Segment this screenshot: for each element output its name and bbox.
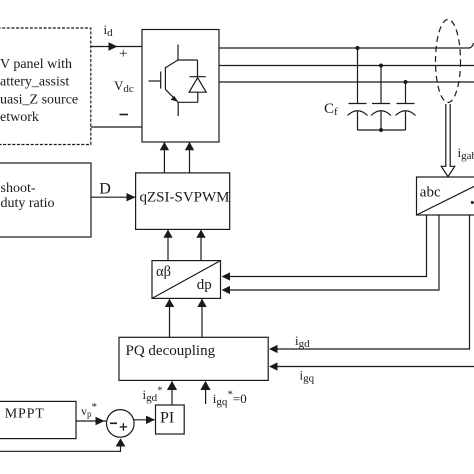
wire: DC+ from PV network to inverter <box>91 46 142 48</box>
label vdc <box>114 78 134 95</box>
wire: abc block output 2 to alpha-beta block <box>229 215 439 290</box>
inverter block U1 <box>142 30 219 143</box>
label abc <box>420 185 441 201</box>
shoot-through duty ratio block <box>0 163 91 237</box>
svg-text:shoot-: shoot- <box>1 181 36 196</box>
feedback wire vp into summing junction <box>0 446 121 452</box>
junction node on phase A <box>356 46 360 50</box>
arrowhead into qZSI-SVPWM bottom 1 <box>163 230 172 238</box>
arrowhead into inverter bottom 2 <box>185 142 194 150</box>
label PQ decoupling <box>126 343 216 359</box>
label Cf <box>324 101 338 118</box>
arrowhead into alpha-beta block input 2 <box>222 286 231 294</box>
capacitor Cf phase B: drop wire <box>380 66 382 104</box>
wire: phase C line <box>219 81 474 83</box>
junction node on phase B <box>379 64 383 68</box>
grid ellipse <box>436 20 461 103</box>
wire: phase B line <box>219 65 474 67</box>
svg-text:D: D <box>99 181 111 198</box>
label + in summing junction <box>120 423 128 431</box>
capacitor Cf phase B: plates <box>371 104 391 131</box>
arrowhead feedback into summing junction <box>116 438 126 446</box>
arrowhead on DC+ wire <box>109 42 118 50</box>
svg-text:PQ decoupling: PQ decoupling <box>126 343 216 359</box>
junction node on capacitor bus <box>379 128 383 132</box>
svg-text:dp: dp <box>197 277 212 293</box>
label MPPT <box>5 406 45 421</box>
label + (DC plus) <box>119 46 127 62</box>
arrowhead vp* into summing junction <box>96 417 105 425</box>
svg-text:network: network <box>0 110 39 125</box>
svg-text:MPPT: MPPT <box>5 406 45 421</box>
label − in summing junction <box>110 422 117 424</box>
arrowhead into inverter bottom 1 <box>160 142 169 150</box>
label − (DC minus) <box>120 114 129 116</box>
PV panel with battery_assist quasi_Z source network block (dashed) <box>0 28 91 145</box>
label igq <box>300 368 315 385</box>
svg-text:αβ: αβ <box>156 264 171 280</box>
label igabc <box>458 145 474 162</box>
svg-text:abc: abc <box>420 185 441 201</box>
wire: igd* from PI to PQ decoupling <box>171 382 173 406</box>
svg-text:+: + <box>119 46 127 62</box>
hollow arrow igabc (grid current measurement) <box>441 104 455 177</box>
svg-text:qZSI-SVPWM: qZSI-SVPWM <box>140 190 230 206</box>
arrowhead into qZSI-SVPWM bottom 2 <box>196 230 205 238</box>
capacitor Cf phase A: drop wire <box>357 48 359 104</box>
capacitor Cf phase C: drop wire <box>405 82 407 104</box>
diode D1 (antiparallel) <box>178 60 206 102</box>
MPPT block <box>0 401 76 438</box>
arrowhead into PI <box>146 416 155 424</box>
wire: DC− from PV network to inverter <box>91 126 142 128</box>
arrowhead into alpha-beta block input 1 <box>222 272 231 280</box>
qZSI-SVPWM block <box>136 173 230 230</box>
arrowhead igq into PQ decoupling <box>269 362 278 370</box>
svg-text:PI: PI <box>160 409 174 426</box>
label qZSI-SVPWM <box>140 190 230 206</box>
label dp <box>197 277 212 293</box>
capacitor Cf phase C: plates <box>396 104 416 131</box>
wire: alpha-beta output 1 to qZSI-SVPWM <box>167 230 169 261</box>
arrowhead into alpha-beta block bottom input 2 <box>197 299 206 307</box>
svg-text:PV panel with: PV panel with <box>0 57 72 72</box>
arrowhead igq* into PQ decoupling <box>200 381 210 390</box>
arrowhead igd into PQ decoupling <box>269 345 278 353</box>
capacitor common bus wire <box>358 129 406 131</box>
svg-text:duty ratio: duty ratio <box>1 196 55 211</box>
label: PV panel with battery_assist quasi_Z source network <box>0 57 78 125</box>
wire: PQ decoupling output 2 to alpha-beta block <box>201 299 203 337</box>
arrowhead igd* into PQ decoupling <box>167 381 177 390</box>
wire: D from duty ratio block to qZSI-SVPWM <box>91 196 135 198</box>
summing junction <box>107 410 135 438</box>
svg-text:quasi_Z source: quasi_Z source <box>0 93 78 108</box>
capacitor Cf phase A: plates <box>348 104 368 131</box>
junction node on phase C <box>404 80 408 84</box>
svg-text:battery_assist: battery_assist <box>0 75 69 90</box>
PQ decoupling block <box>119 337 268 380</box>
wire: abc block output 1 to alpha-beta block <box>229 215 427 277</box>
label igq*=0 <box>213 388 247 408</box>
wire: qZSI-SVPWM output 1 to inverter <box>163 143 165 173</box>
alpha-beta / dp transform block <box>152 261 221 299</box>
IGBT Q1 <box>149 45 179 117</box>
PI controller block <box>156 405 185 434</box>
arrowhead D into qZSI-SVPWM <box>127 193 136 201</box>
label alpha-beta <box>156 264 171 280</box>
abc-dq transform block <box>417 177 474 215</box>
wire: qZSI-SVPWM output 2 to inverter <box>189 143 191 173</box>
wire: phase A line <box>219 43 474 48</box>
wire: vp* from MPPT to summing junction <box>76 420 106 422</box>
label id <box>104 22 114 39</box>
wire: igd from abc block to PQ decoupling <box>277 215 470 349</box>
label shoot-through duty ratio <box>1 181 55 211</box>
wire: igq from off-screen dq output to PQ decoupling <box>277 366 474 368</box>
wire: igq*=0 into PQ decoupling <box>205 382 207 405</box>
label PI <box>160 409 174 426</box>
label igd <box>295 333 310 350</box>
wire: alpha-beta output 2 to qZSI-SVPWM <box>200 230 202 261</box>
label vp* <box>81 401 97 419</box>
label dq (cut off at edge) <box>471 201 474 204</box>
wire: summing junction to PI <box>134 419 155 421</box>
wire: PQ decoupling output 1 to alpha-beta block <box>169 299 171 337</box>
label igd* <box>143 385 163 405</box>
arrowhead into alpha-beta block bottom input 1 <box>165 299 174 307</box>
label D <box>99 181 111 198</box>
